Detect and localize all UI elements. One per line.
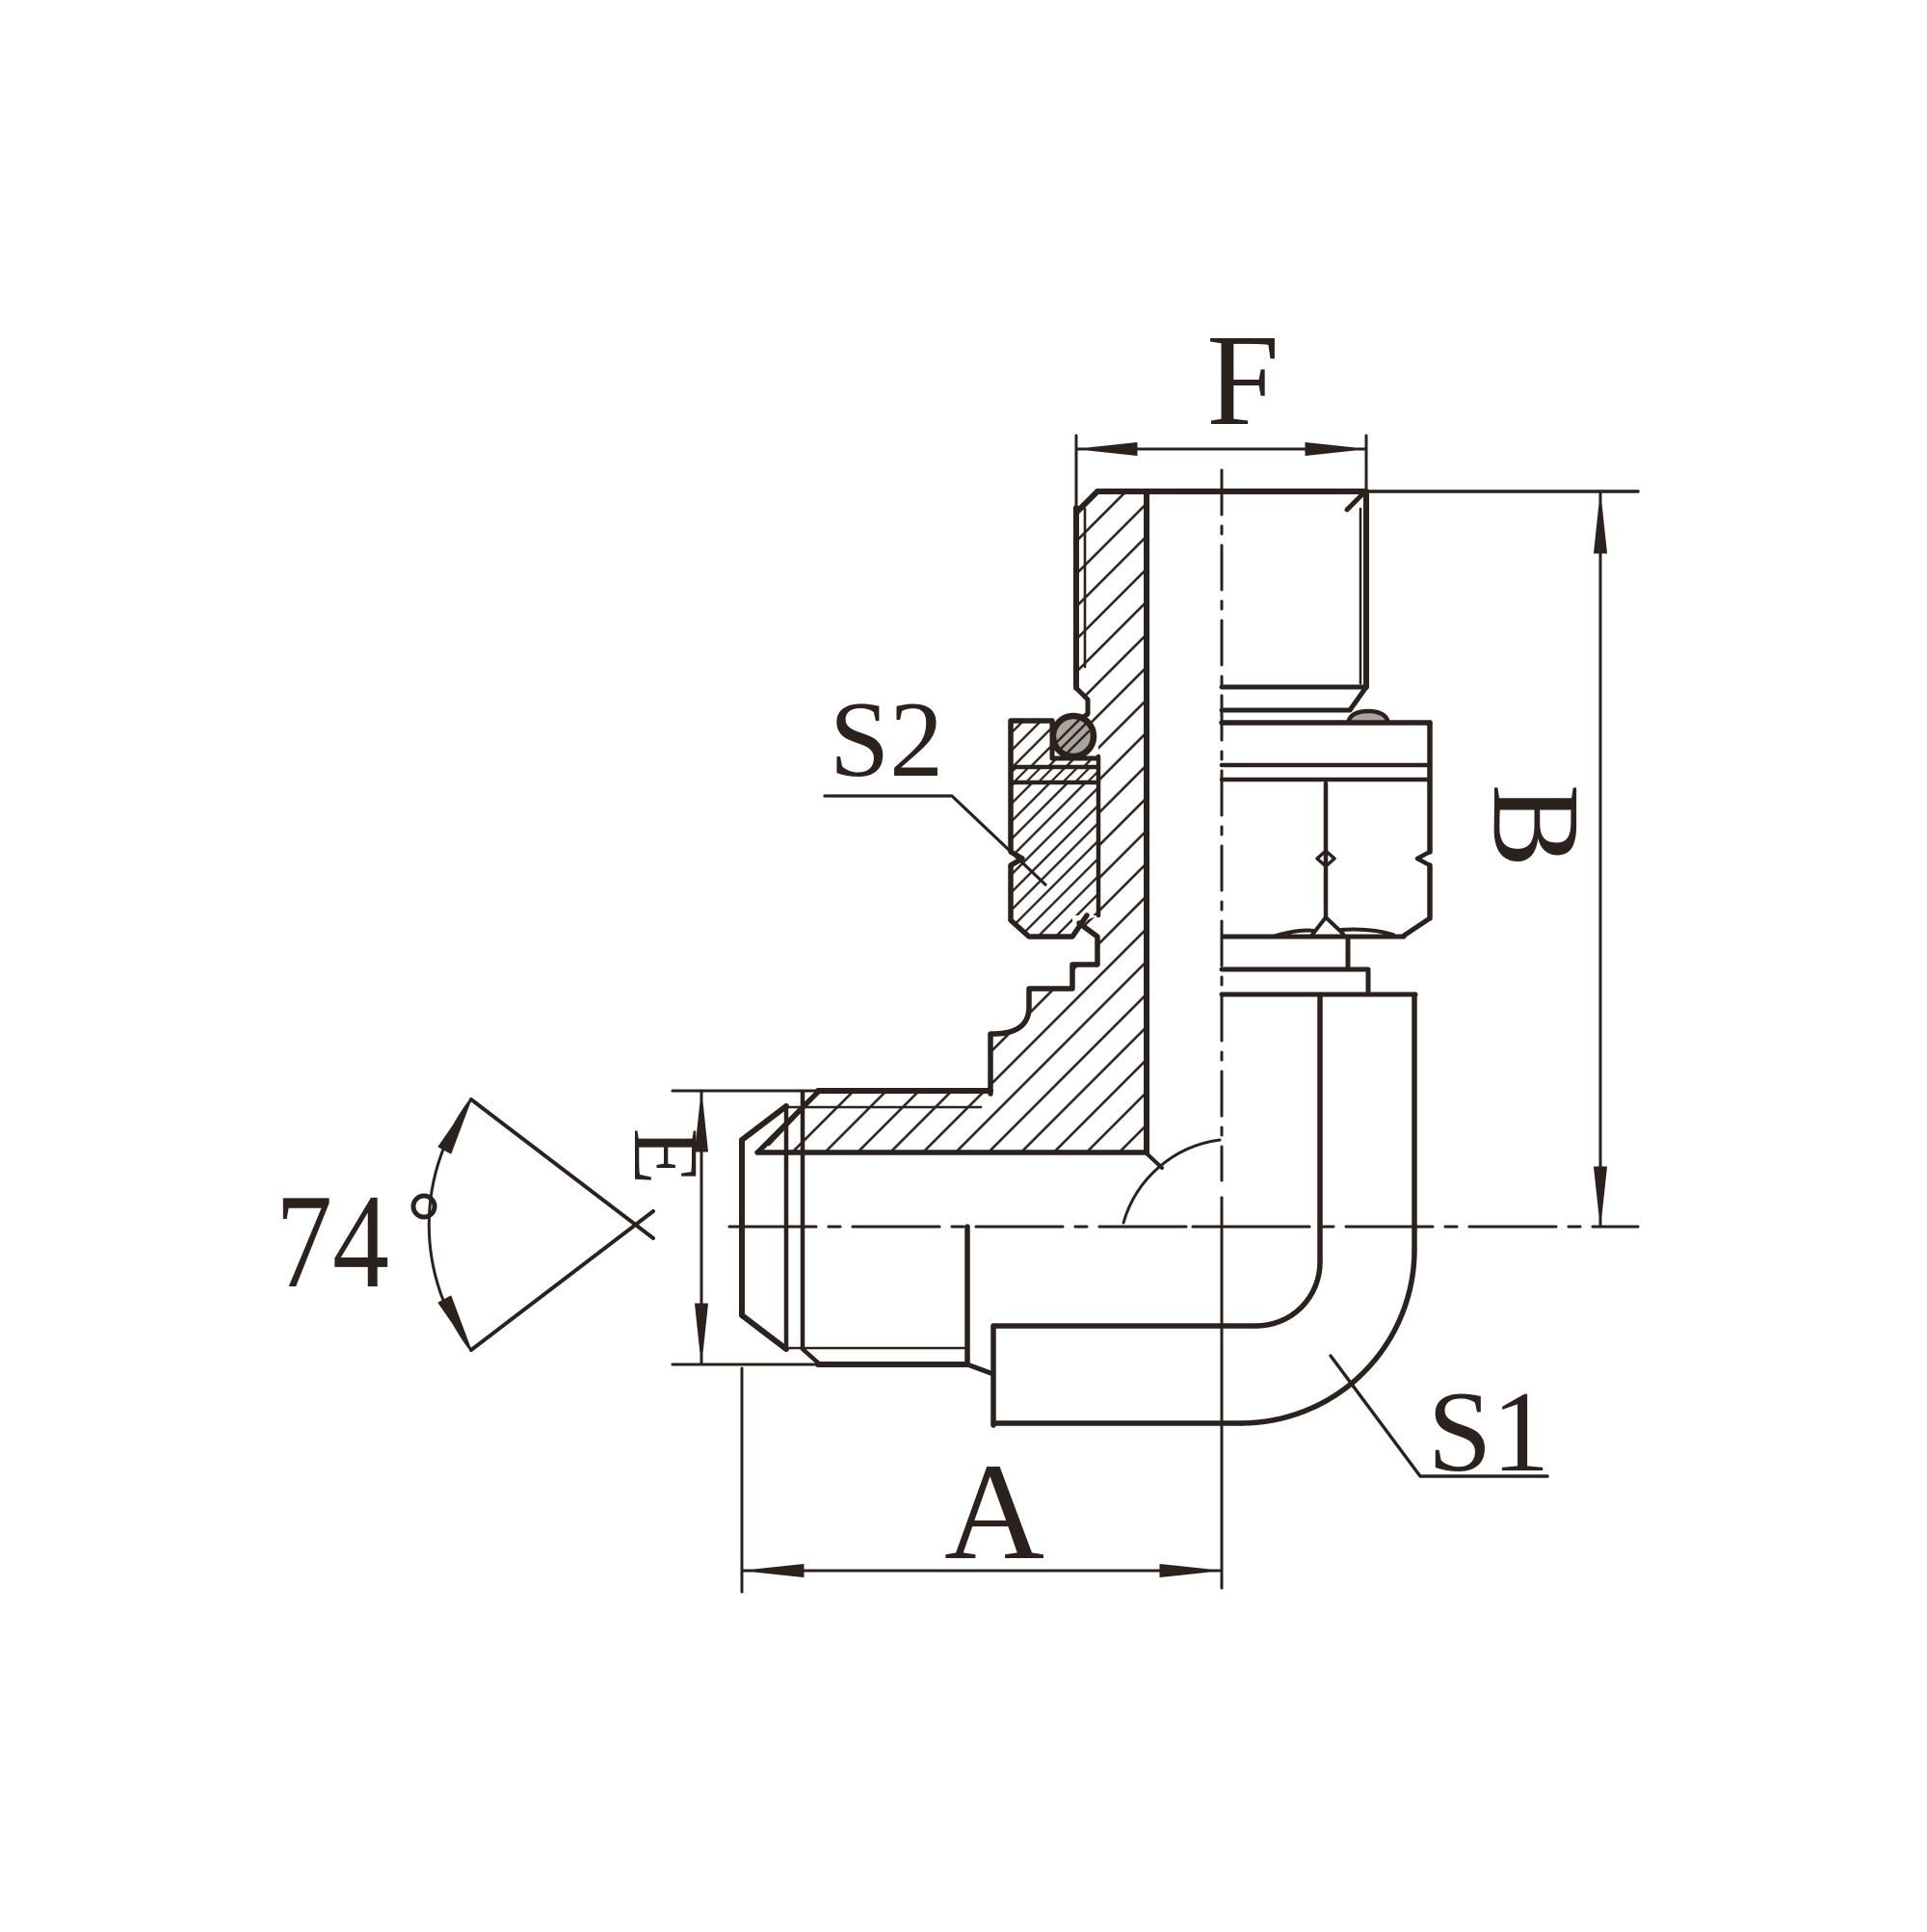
stud top chamfer left xyxy=(1076,491,1097,513)
seal washer lines xyxy=(1011,767,1098,782)
dimension A line xyxy=(744,1570,1220,1573)
port: cone bottom edge xyxy=(742,1315,786,1349)
stud thread root right (thin) xyxy=(1359,509,1362,683)
74 degree cone ray lower xyxy=(471,1211,653,1350)
hatched section: locknut S2 body xyxy=(1011,782,1098,937)
locknut flange right edge xyxy=(1427,723,1433,918)
F arrow left xyxy=(1078,443,1137,456)
port to body chamfer bottom xyxy=(967,1364,993,1374)
drill lip arc xyxy=(1123,1140,1220,1223)
locknut hex bottom chamfer xyxy=(1404,918,1430,936)
74 arc arrow top xyxy=(438,1099,471,1153)
center cross xyxy=(1193,1198,1251,1256)
hatched section: seal washer (dense) xyxy=(1011,767,1098,782)
body inner boss corner arc xyxy=(1256,1262,1320,1326)
locknut outline (section side) xyxy=(1011,721,1087,937)
dimension E line xyxy=(700,1091,703,1364)
stud top face xyxy=(1097,489,1366,494)
B arrow bottom xyxy=(1595,1167,1607,1225)
svg-text:S1: S1 xyxy=(1428,1367,1550,1495)
port: thread start verticals xyxy=(784,1107,789,1348)
B arrow top xyxy=(1595,494,1607,553)
locknut hex V notch right xyxy=(1417,852,1430,865)
O-ring (outline bump, right) xyxy=(1348,711,1388,723)
stud OD left xyxy=(1073,508,1079,688)
O-ring groove in nut xyxy=(1052,721,1095,758)
svg-text:E: E xyxy=(615,1128,718,1185)
locknut flange lines right xyxy=(1222,765,1430,780)
dimension F extension lines xyxy=(1076,436,1366,509)
dimension E extension lines xyxy=(673,1090,820,1093)
O-ring groove left wall profile xyxy=(1076,688,1088,722)
E arrow bottom xyxy=(696,1304,708,1363)
thread relief line lower xyxy=(1222,708,1350,713)
degree symbol xyxy=(413,1196,435,1217)
bore corner stub xyxy=(1147,1153,1162,1168)
washer under nut right xyxy=(1346,937,1351,969)
port: thread end vertical xyxy=(964,1227,970,1364)
A arrow right xyxy=(1160,1565,1219,1577)
top face extension to B xyxy=(1366,490,1638,493)
hex edge diamond xyxy=(1317,851,1334,866)
S1 leader xyxy=(1331,1356,1547,1476)
dimension F line xyxy=(1076,448,1366,451)
body outer edge right xyxy=(1412,994,1417,1250)
stud bore wall left xyxy=(1144,491,1149,1152)
body bottom face xyxy=(993,1420,1242,1426)
elbow outer corner arc S1 xyxy=(1241,1250,1414,1423)
E arrow top xyxy=(696,1093,708,1151)
port: cone top edge xyxy=(742,1106,786,1140)
74 degree cone ray upper xyxy=(471,1099,653,1238)
S2 leader xyxy=(825,796,1045,885)
locknut hex mid edge xyxy=(1324,783,1329,917)
body hex top face xyxy=(819,1088,990,1094)
port: thread OD top xyxy=(818,1088,990,1094)
body upper boss outline (section side stair) xyxy=(990,923,1097,1094)
stud OD right xyxy=(1363,491,1369,687)
port: shelf chamfers xyxy=(803,1091,820,1364)
stud thread root left (thin) xyxy=(1084,509,1087,667)
74 degree arc xyxy=(429,1099,471,1350)
hatched section: locknut S2 upper block xyxy=(1011,721,1095,767)
centerline horizontal (port axis) xyxy=(729,1226,1638,1229)
svg-text:B: B xyxy=(1466,784,1605,868)
body lower-left edge xyxy=(990,1326,996,1425)
locknut hex bottom edge xyxy=(1224,935,1404,940)
svg-text:S2: S2 xyxy=(830,680,943,800)
locknut hex bottom facet arcs xyxy=(1276,917,1393,936)
hatched section: elbow body and top stud wall xyxy=(757,491,1147,1152)
svg-text:A: A xyxy=(944,1436,1044,1589)
locknut top face xyxy=(1222,720,1430,726)
F arrow right xyxy=(1306,443,1364,456)
port: flare face xyxy=(739,1140,745,1315)
dimension A extension left xyxy=(741,1368,744,1592)
thread relief line upper xyxy=(1222,685,1366,690)
centerline vertical (stud axis) xyxy=(1221,470,1224,1180)
body hex chamfer / flare seat boundary xyxy=(757,1091,819,1152)
port: thread OD bottom xyxy=(818,1362,967,1367)
body inner boss bottom line xyxy=(993,1323,1256,1329)
thread end chamfer right xyxy=(1350,687,1366,710)
svg-text:F: F xyxy=(1206,308,1280,453)
port: flare seat inner line xyxy=(769,1104,807,1145)
74 arc arrow bottom xyxy=(438,1296,471,1350)
stud top chamfer right xyxy=(1347,491,1365,510)
bore top line xyxy=(757,1150,1147,1155)
nut thread interface xyxy=(1096,756,1101,915)
dimension B line xyxy=(1599,493,1602,1225)
A arrow left xyxy=(745,1565,804,1577)
svg-text:74: 74 xyxy=(276,1167,389,1316)
O-ring (section, left) xyxy=(1053,716,1094,756)
body inner boss vertical xyxy=(1317,994,1323,1262)
port: thread root lines (thin) xyxy=(786,1107,981,1348)
